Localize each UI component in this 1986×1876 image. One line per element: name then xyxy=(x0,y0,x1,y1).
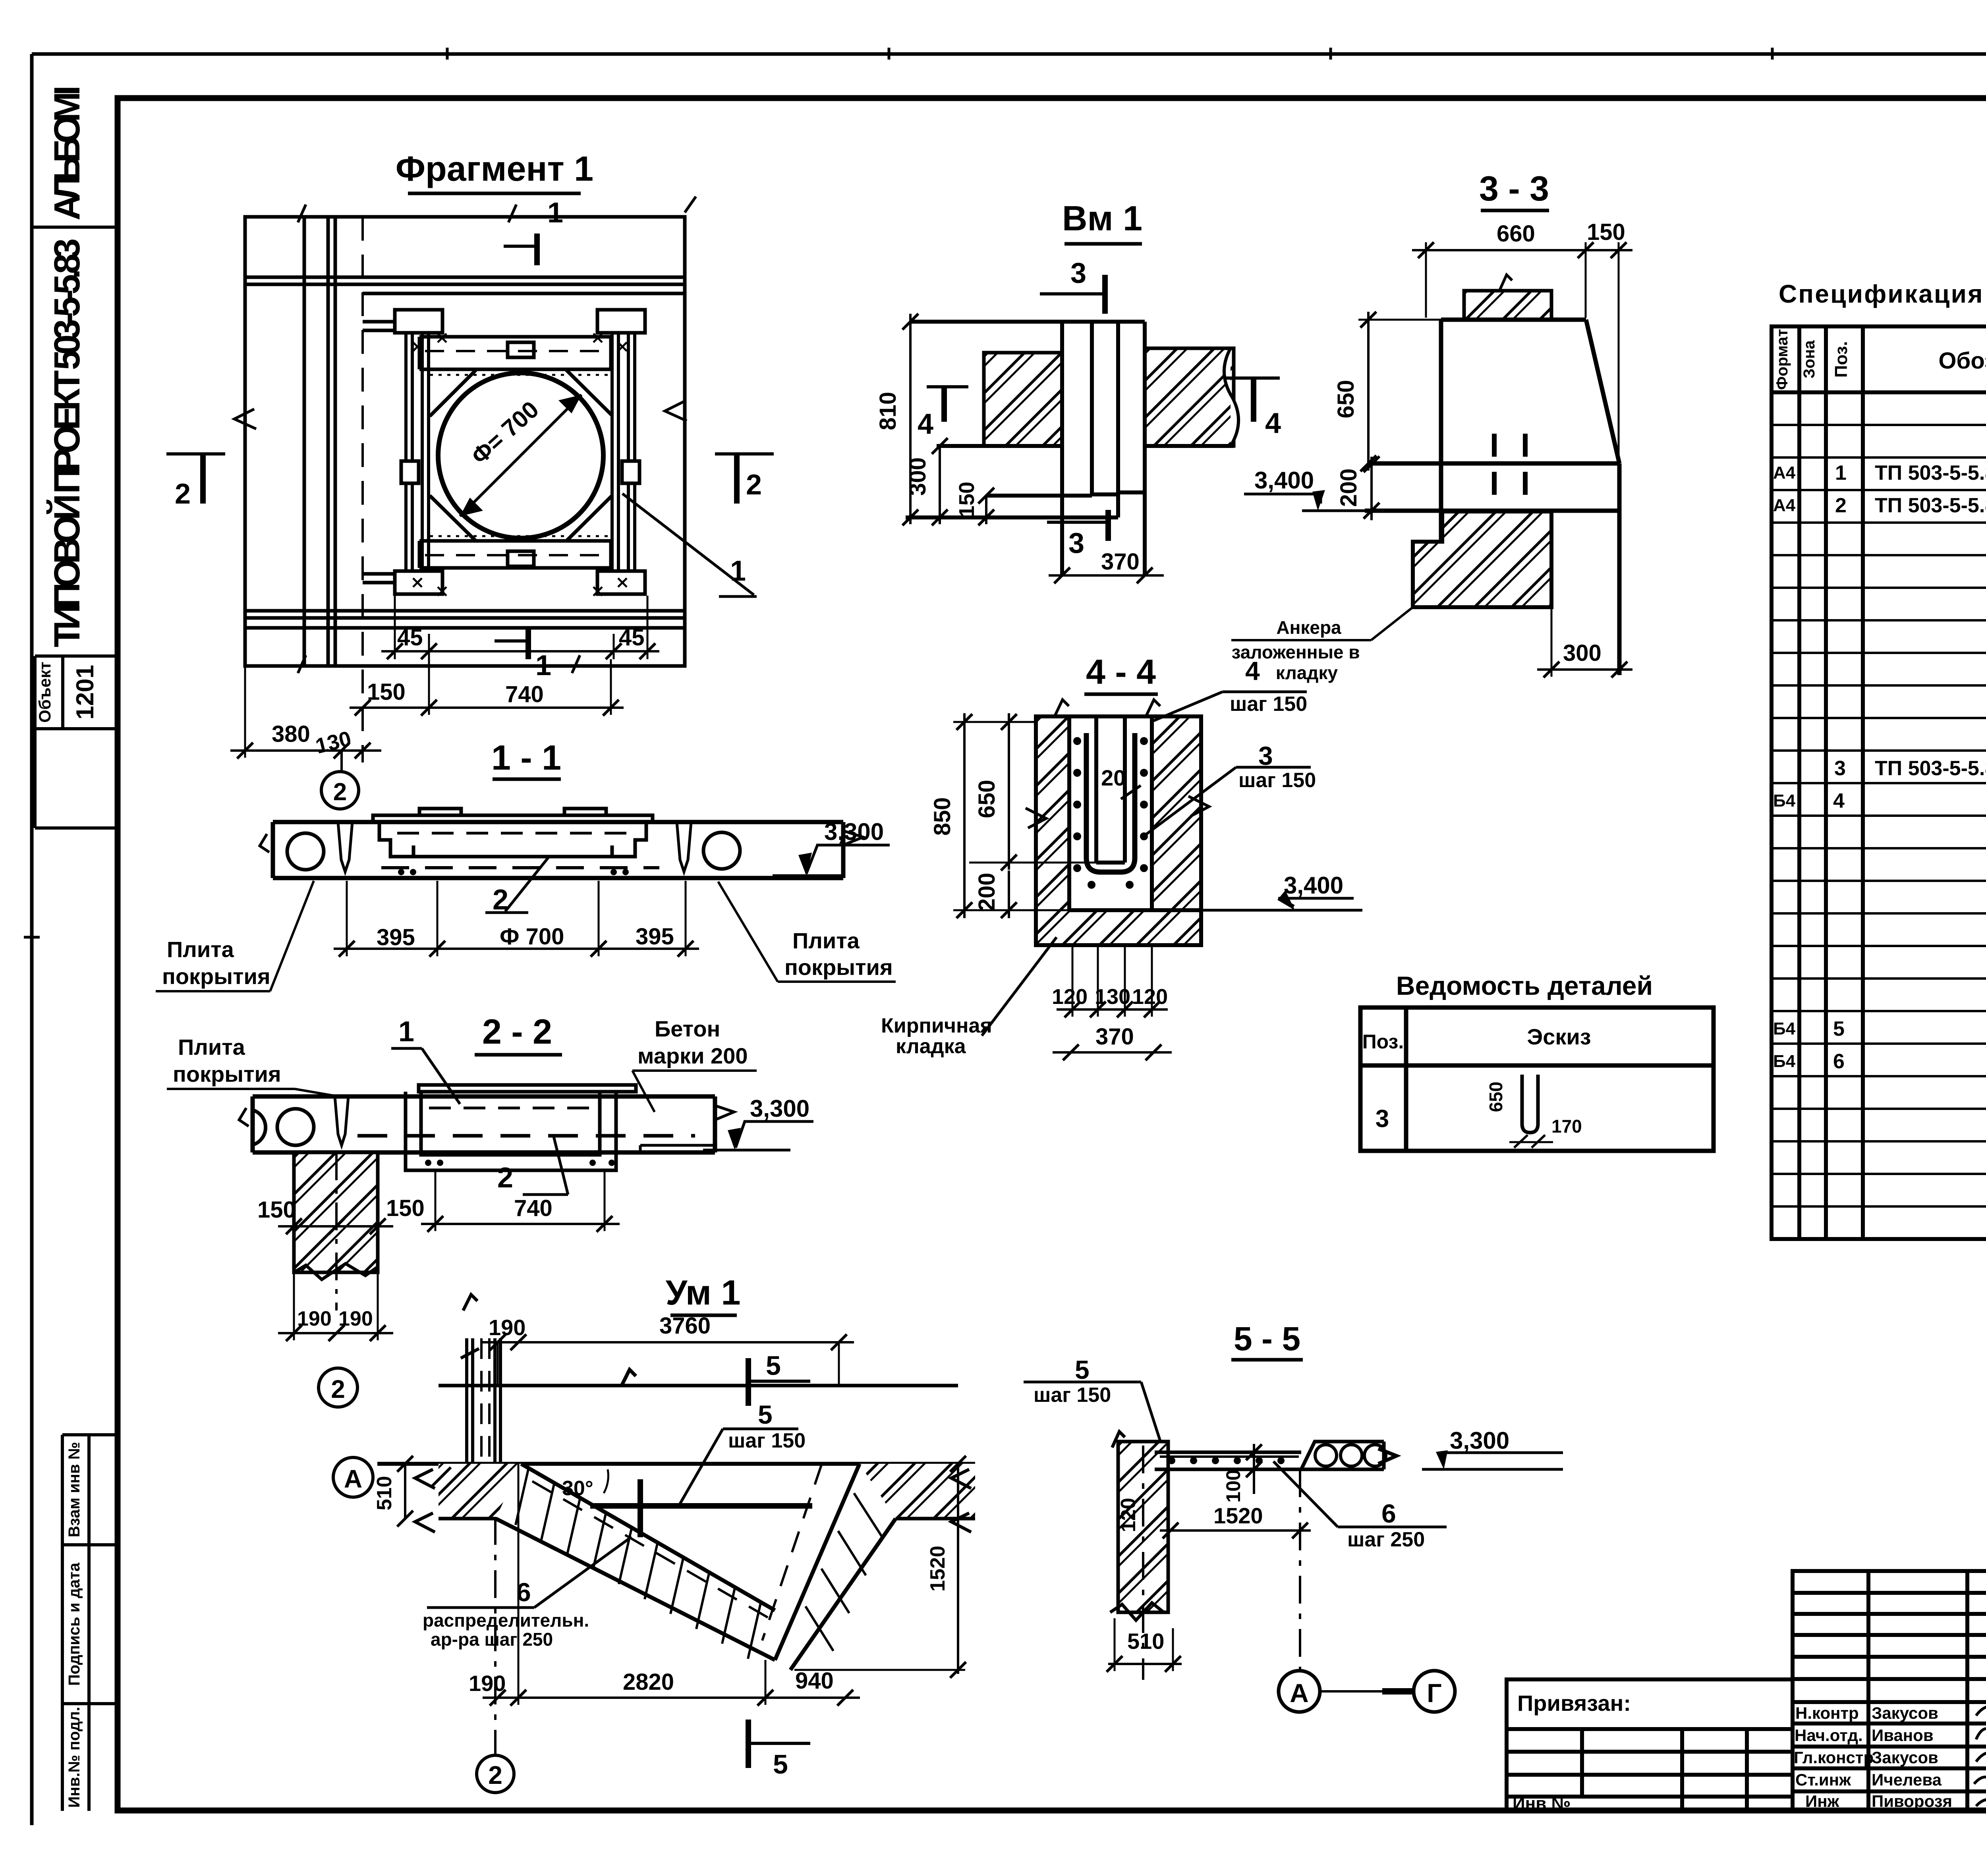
dimension 45 45 row xyxy=(381,596,659,659)
svg-text:740: 740 xyxy=(514,1195,553,1221)
Vm1 channel walls xyxy=(906,322,1234,575)
specification table grid xyxy=(1772,326,1986,1239)
svg-text:шаг 150: шаг 150 xyxy=(1238,769,1316,792)
svg-text:6: 6 xyxy=(1833,1050,1845,1073)
privyazan box xyxy=(1507,1679,1793,1811)
svg-text:100: 100 xyxy=(1222,1469,1244,1502)
Vedomost sketch U-bar xyxy=(1486,1075,1582,1148)
Vm1 section mark 4 right xyxy=(1224,378,1281,439)
4-4 masonry with channel xyxy=(1036,716,1201,945)
svg-text:покрытия: покрытия xyxy=(784,955,893,980)
sidebar stamp column xyxy=(32,227,118,1811)
svg-text:АЛЬБОМ I: АЛЬБОМ I xyxy=(47,85,87,220)
svg-text:1: 1 xyxy=(730,555,746,587)
4-4 rebar U with dots xyxy=(1086,733,1135,872)
svg-text:Н.контр: Н.контр xyxy=(1795,1704,1859,1722)
svg-text:150: 150 xyxy=(955,482,979,517)
svg-text:1 - 1: 1 - 1 xyxy=(491,738,561,777)
svg-text:20: 20 xyxy=(1101,765,1126,790)
svg-text:Инж: Инж xyxy=(1805,1792,1840,1810)
svg-text:2: 2 xyxy=(331,1375,345,1403)
grid bubble G (5-5) xyxy=(1320,1671,1455,1712)
dimension 740 (2-2) xyxy=(421,1172,620,1232)
3-3 label Ankera xyxy=(1231,607,1413,683)
bottom stamp boxes xyxy=(62,1433,118,1436)
5-5 slab xyxy=(1155,1452,1384,1469)
label Plita pokrytiya left (1-1) xyxy=(156,881,314,991)
elevation 3.400 (Vm1/3-3) xyxy=(1244,467,1436,511)
section mark 1 bottom xyxy=(495,627,551,681)
3-3 anchors dashed xyxy=(1494,434,1525,583)
slab joints 1-1 xyxy=(338,822,691,872)
svg-text:130: 130 xyxy=(1095,985,1130,1009)
Um1 30 deg label xyxy=(562,1469,608,1500)
svg-text:3,300: 3,300 xyxy=(824,818,884,845)
svg-text:740: 740 xyxy=(505,681,544,707)
Um1 dim 190 3760 top xyxy=(483,1313,854,1386)
section 4-4 title xyxy=(1084,652,1158,694)
svg-text:30°: 30° xyxy=(562,1477,593,1500)
Vm1 section mark 3 top xyxy=(1040,257,1105,314)
svg-text:120: 120 xyxy=(1132,985,1168,1009)
section mark 2 right xyxy=(715,454,774,504)
svg-text:5: 5 xyxy=(766,1351,781,1381)
section 2-2 title xyxy=(475,1012,562,1055)
svg-text:Спецификация элементов к монол: Спецификация элементов к монолитным конс… xyxy=(1779,280,1986,308)
Vedomost table xyxy=(1360,1007,1714,1151)
specification headers xyxy=(1773,329,1986,390)
svg-text:510: 510 xyxy=(1127,1629,1164,1654)
svg-text:395: 395 xyxy=(377,924,415,950)
svg-text:5: 5 xyxy=(1833,1017,1845,1040)
svg-text:940: 940 xyxy=(795,1668,834,1694)
x marks on pads xyxy=(413,334,627,596)
svg-text:шаг 150: шаг 150 xyxy=(1230,693,1307,716)
grid bubble 2 xyxy=(321,751,359,809)
svg-text:395: 395 xyxy=(636,924,674,950)
svg-text:покрытия: покрытия xyxy=(162,964,270,989)
svg-text:200: 200 xyxy=(1336,469,1362,507)
Vm1 section mark 4 left xyxy=(918,387,968,440)
5-5 dim 510 xyxy=(1107,1618,1182,1672)
slab break marks 1-1 xyxy=(260,831,863,852)
svg-text:3,400: 3,400 xyxy=(1254,467,1314,494)
Um1 hatched band right xyxy=(860,1464,975,1532)
section 2-2 slab xyxy=(253,1096,715,1152)
grid bubble A (5-5) xyxy=(1279,1671,1320,1712)
svg-text:Пиворозя: Пиворозя xyxy=(1872,1792,1952,1810)
svg-text:2820: 2820 xyxy=(623,1669,674,1695)
svg-text:2: 2 xyxy=(333,778,347,806)
svg-text:шаг 150: шаг 150 xyxy=(728,1429,806,1452)
svg-text:Ум 1: Ум 1 xyxy=(666,1273,741,1312)
svg-text:810: 810 xyxy=(875,392,901,430)
circle F700 xyxy=(438,373,603,538)
Um1 grid bubble A xyxy=(333,1457,451,1497)
svg-text:марки 200: марки 200 xyxy=(638,1043,748,1068)
svg-text:5 - 5: 5 - 5 xyxy=(1234,1320,1300,1357)
Um1 label 6 raspredelit xyxy=(423,1537,632,1650)
svg-text:А: А xyxy=(1290,1678,1309,1708)
4-4 label Kirpichnaya kladka xyxy=(881,937,1057,1058)
Um1 dim 510 left xyxy=(373,1456,413,1527)
section mark 2 left xyxy=(166,454,225,510)
3-3 dim 300 xyxy=(1537,607,1632,677)
svg-text:Привязан:: Привязан: xyxy=(1517,1691,1631,1716)
svg-text:510: 510 xyxy=(373,1476,396,1511)
svg-text:2: 2 xyxy=(493,884,508,916)
label Plita pokrytiya right (1-1) xyxy=(718,882,896,982)
svg-text:4: 4 xyxy=(1245,656,1260,685)
svg-text:5: 5 xyxy=(773,1749,788,1779)
drain tray 1-1 xyxy=(373,809,653,857)
svg-text:150: 150 xyxy=(386,1195,425,1221)
fold tick marks on top border xyxy=(24,48,1986,937)
svg-text:300: 300 xyxy=(905,457,931,496)
Vm1 title xyxy=(1062,199,1142,244)
svg-text:А4: А4 xyxy=(1773,463,1796,483)
svg-text:3: 3 xyxy=(1068,527,1084,559)
svg-text:2: 2 xyxy=(497,1162,513,1194)
svg-text:3,300: 3,300 xyxy=(750,1095,809,1122)
svg-text:190: 190 xyxy=(297,1307,332,1330)
svg-text:Закусов: Закусов xyxy=(1872,1748,1938,1767)
svg-text:кладку: кладку xyxy=(1276,662,1338,683)
svg-text:Фрагмент 1: Фрагмент 1 xyxy=(396,149,593,188)
Um1 dims 190 2820 940 xyxy=(469,1464,860,1706)
specification rows content xyxy=(1773,398,1986,1138)
right rail xyxy=(612,333,639,571)
svg-text:Кирпичная: Кирпичная xyxy=(881,1014,992,1037)
Um1 section mark 5 bottom xyxy=(748,1720,810,1779)
Vm1 dim 370 xyxy=(1049,549,1164,583)
5-5 wall xyxy=(1110,1432,1168,1680)
frame corner pads xyxy=(395,310,645,594)
leader item 1 xyxy=(622,494,757,596)
svg-text:380: 380 xyxy=(272,721,310,747)
Fragment 1 title xyxy=(396,149,593,193)
svg-text:4: 4 xyxy=(918,408,933,440)
5-5 label 6 shag 250 xyxy=(1273,1461,1447,1551)
svg-text:1: 1 xyxy=(1835,461,1847,484)
svg-text:3 - 3: 3 - 3 xyxy=(1479,169,1549,208)
3-3 masonry below xyxy=(1413,511,1551,607)
section mark 1 top xyxy=(504,197,563,265)
top beam xyxy=(419,337,611,369)
svg-text:4 - 4: 4 - 4 xyxy=(1086,652,1156,691)
plan break marks xyxy=(234,197,696,673)
4-4 dims 120 130 120 xyxy=(1052,945,1168,1017)
svg-text:300: 300 xyxy=(1563,640,1602,666)
Vm1 dim 300 xyxy=(905,438,948,525)
svg-text:Плита: Плита xyxy=(792,928,860,953)
svg-text:2: 2 xyxy=(488,1761,502,1789)
Um1 rebar 5 xyxy=(590,1503,812,1509)
svg-text:Г: Г xyxy=(1427,1678,1441,1708)
5-5 hollow core plate xyxy=(1301,1442,1397,1469)
5-5 axis to bubble A xyxy=(1299,1469,1301,1670)
svg-text:3: 3 xyxy=(1070,257,1086,289)
octagon corner diagonals xyxy=(430,370,612,541)
svg-text:1201: 1201 xyxy=(71,665,99,720)
4-4 label 3 shag 150 xyxy=(1142,741,1316,837)
Fragment 1 plan outline xyxy=(245,217,685,666)
svg-text:шаг 150: шаг 150 xyxy=(1034,1384,1111,1407)
4-4 dim 20 xyxy=(1101,765,1141,799)
svg-text:190: 190 xyxy=(489,1315,525,1340)
svg-text:650: 650 xyxy=(974,780,1000,818)
section 5-5 title xyxy=(1231,1320,1303,1360)
svg-text:Формат: Формат xyxy=(1773,329,1791,390)
svg-text:2 - 2: 2 - 2 xyxy=(482,1012,552,1051)
hollow core circles 2-2 xyxy=(277,1109,314,1145)
svg-text:шаг 250: шаг 250 xyxy=(1347,1528,1425,1551)
svg-text:150: 150 xyxy=(1587,219,1625,245)
title block grid xyxy=(1793,1571,1986,1811)
Um1 hatched band left xyxy=(415,1464,521,1532)
svg-text:850: 850 xyxy=(929,797,955,836)
svg-text:3760: 3760 xyxy=(659,1313,711,1339)
svg-text:3: 3 xyxy=(1376,1105,1389,1133)
specification row lines xyxy=(1772,425,1986,1206)
Vm1 dim 150 xyxy=(955,482,994,525)
label 2 leader (2-2) xyxy=(497,1137,568,1195)
signature rows xyxy=(1794,1704,1952,1810)
svg-text:Поз.: Поз. xyxy=(1831,341,1851,378)
drain tray 2-2 xyxy=(406,1085,636,1170)
bottom beam xyxy=(419,541,611,568)
svg-text:120: 120 xyxy=(1117,1498,1140,1532)
svg-text:Инв №: Инв № xyxy=(1513,1794,1571,1813)
svg-text:Ичелева: Ичелева xyxy=(1872,1770,1942,1789)
Um1 ground line xyxy=(377,1462,975,1466)
svg-text:Обозначение: Обозначение xyxy=(1938,348,1986,374)
dimensions 395 F700 395 xyxy=(334,881,699,957)
svg-text:Поз.: Поз. xyxy=(1362,1031,1404,1053)
svg-text:170: 170 xyxy=(1551,1116,1582,1137)
svg-text:370: 370 xyxy=(1095,1024,1134,1050)
Um1 funnel left slope xyxy=(496,1464,775,1660)
3-3 dim 660 150 xyxy=(1412,219,1632,461)
svg-text:660: 660 xyxy=(1497,221,1535,247)
4-4 break marks xyxy=(1026,700,1209,828)
4-4 label 4 shag 150 xyxy=(1153,656,1307,721)
svg-text:3,400: 3,400 xyxy=(1284,872,1343,899)
svg-text:5: 5 xyxy=(1075,1355,1090,1384)
dimension 190 190 (2-2) xyxy=(278,1272,393,1341)
Vm1 dim 810 xyxy=(875,314,918,525)
svg-text:3,300: 3,300 xyxy=(1450,1427,1509,1454)
svg-text:Б4: Б4 xyxy=(1773,1052,1796,1071)
4-4 dim 370 xyxy=(1053,1024,1172,1060)
svg-text:2: 2 xyxy=(1835,494,1847,517)
svg-text:190: 190 xyxy=(469,1671,506,1696)
section 1-1 title xyxy=(491,738,561,779)
signatures script xyxy=(1974,1706,1986,1807)
5-5 dim 1520 xyxy=(1160,1503,1311,1538)
svg-text:Иванов: Иванов xyxy=(1872,1726,1934,1745)
dimension 150 150 (2-2) xyxy=(257,1195,425,1234)
svg-text:4: 4 xyxy=(1265,407,1281,439)
svg-text:190: 190 xyxy=(338,1307,373,1330)
Um1 dim 1520 right xyxy=(794,1456,966,1678)
3-3 monolith trapezoid xyxy=(1365,320,1619,675)
svg-text:150: 150 xyxy=(367,679,406,705)
svg-text:покрытия: покрытия xyxy=(173,1062,281,1087)
dimension 150 740 row xyxy=(350,659,624,716)
svg-text:А: А xyxy=(344,1465,362,1493)
svg-text:6: 6 xyxy=(1381,1499,1396,1528)
svg-text:ТИПОВОЙ ПРОЕКТ 503-5-5.83: ТИПОВОЙ ПРОЕКТ 503-5-5.83 xyxy=(46,238,87,647)
svg-text:Ф 700: Ф 700 xyxy=(500,924,564,950)
svg-text:Нач.отд.: Нач.отд. xyxy=(1795,1726,1863,1745)
Um1 label 5 shag 150 xyxy=(679,1400,806,1505)
svg-text:кладка: кладка xyxy=(896,1035,966,1058)
svg-text:распределительн.: распределительн. xyxy=(423,1610,589,1631)
divider under ALBOM I xyxy=(32,226,118,229)
svg-text:Б4: Б4 xyxy=(1773,791,1796,811)
section 3-3 title xyxy=(1479,169,1549,210)
4-4 dim 200 xyxy=(953,870,1069,918)
Vm1 left brick wall xyxy=(984,353,1062,446)
elevation 3.400 (4-4) xyxy=(1201,872,1362,910)
svg-text:Подпись и дата: Подпись и дата xyxy=(66,1562,83,1686)
svg-text:Закусов: Закусов xyxy=(1872,1704,1938,1722)
svg-text:Ведомость деталей: Ведомость деталей xyxy=(1396,971,1653,1000)
4-4 dim 850 xyxy=(929,713,1036,918)
Um1 funnel right slope xyxy=(762,1464,896,1670)
4-4 dim 650 xyxy=(969,713,1096,870)
svg-text:4: 4 xyxy=(1833,789,1845,813)
Um1 axis and grid bubble 2 xyxy=(477,1517,514,1793)
3-3 dim 650 xyxy=(1333,312,1441,471)
svg-text:А4: А4 xyxy=(1773,496,1796,515)
svg-text:Объект: Объект xyxy=(35,662,54,723)
svg-text:Гл.констр: Гл.констр xyxy=(1794,1748,1874,1767)
Vm1 section mark 3 bottom xyxy=(1047,510,1108,559)
elevation 3.300 (5-5) xyxy=(1422,1427,1563,1469)
svg-text:150: 150 xyxy=(257,1197,296,1223)
F700 diameter arrow xyxy=(460,395,582,516)
svg-text:650: 650 xyxy=(1333,380,1359,419)
dimension 380 130 row xyxy=(230,666,381,759)
elevation 3.300 (2-2) xyxy=(703,1095,813,1150)
Um1 wall stub xyxy=(461,1295,500,1464)
left rail xyxy=(401,333,429,571)
slab joint 2-2 xyxy=(335,1096,348,1145)
hollow core circles 1-1 xyxy=(287,833,324,870)
svg-text:Плита: Плита xyxy=(178,1035,245,1060)
svg-text:Эскиз: Эскиз xyxy=(1527,1024,1591,1049)
3-3 brick above xyxy=(1464,291,1551,320)
svg-text:Зона: Зона xyxy=(1801,340,1818,378)
svg-text:Взам инв №: Взам инв № xyxy=(66,1442,83,1537)
plan axis dashed xyxy=(361,217,364,762)
svg-text:ар-ра шаг 250: ар-ра шаг 250 xyxy=(431,1629,553,1650)
label Plita pokrytiya (2-2) xyxy=(167,1035,338,1096)
svg-text:1520: 1520 xyxy=(926,1546,949,1592)
svg-text:120: 120 xyxy=(1052,985,1088,1009)
svg-text:1: 1 xyxy=(547,197,563,229)
5-5 label 5 shag 150 xyxy=(1024,1355,1163,1449)
label Beton marki 200 xyxy=(632,1016,757,1112)
svg-text:Вм 1: Вм 1 xyxy=(1062,199,1142,238)
svg-text:45: 45 xyxy=(397,625,423,650)
svg-text:200: 200 xyxy=(974,873,1000,911)
5-5 dim 100 xyxy=(1222,1444,1262,1503)
elevation 3.300 (1-1) xyxy=(773,818,890,876)
section 1-1 slab xyxy=(273,822,843,878)
svg-text:650: 650 xyxy=(1486,1082,1506,1112)
Obyekt / 1201 box xyxy=(35,654,118,658)
svg-text:2: 2 xyxy=(175,478,191,510)
Um1 slab top line xyxy=(439,1370,958,1386)
svg-text:Ст.инж: Ст.инж xyxy=(1795,1770,1851,1789)
svg-text:Плита: Плита xyxy=(167,937,234,962)
svg-text:5: 5 xyxy=(758,1400,773,1429)
svg-text:Инв.№ подл.: Инв.№ подл. xyxy=(66,1707,83,1808)
Um1 section mark 5 top xyxy=(748,1351,810,1406)
svg-text:Б4: Б4 xyxy=(1773,1019,1796,1038)
svg-text:ТП 503-5-5.83: ТП 503-5-5.83 xyxy=(1875,494,1986,517)
svg-text:1: 1 xyxy=(535,650,551,681)
svg-text:1: 1 xyxy=(398,1016,414,1048)
svg-text:ТП 503-5-5.83: ТП 503-5-5.83 xyxy=(1875,461,1986,484)
label 1 leader (2-2) xyxy=(391,1016,460,1104)
svg-text:Анкера: Анкера xyxy=(1276,617,1341,638)
svg-text:3: 3 xyxy=(1834,757,1846,780)
Um1 title xyxy=(666,1273,741,1315)
svg-text:ТП 503-5-5.83: ТП 503-5-5.83 xyxy=(1875,757,1986,780)
dim 200 (3-3 band) xyxy=(1336,456,1379,520)
svg-text:370: 370 xyxy=(1101,549,1140,575)
svg-text:45: 45 xyxy=(619,625,645,650)
svg-text:2: 2 xyxy=(746,469,762,501)
label 2 leader (1-1) xyxy=(485,858,548,916)
Vm1 right brick wall xyxy=(1145,348,1234,446)
svg-text:Бетон: Бетон xyxy=(655,1016,720,1041)
svg-text:1520: 1520 xyxy=(1213,1503,1263,1528)
brick wall 2-2 xyxy=(294,1152,378,1310)
grid bubble 2 (2-2) xyxy=(319,1368,357,1407)
